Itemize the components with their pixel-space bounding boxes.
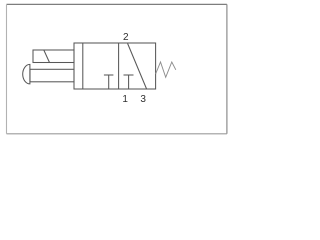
flow path 2 to 3 diagonal: [128, 44, 147, 90]
svg-text:2: 2: [123, 32, 129, 43]
blocked port symbol (left position box): [104, 75, 114, 89]
position divider line: [118, 43, 120, 89]
valve body outline: [74, 43, 156, 89]
actuator coupling divider line: [82, 43, 84, 89]
blocked port 1 symbol (right position box): [124, 75, 134, 89]
svg-text:3: 3: [140, 94, 146, 105]
return spring: [156, 62, 176, 77]
svg-text:1: 1: [122, 94, 128, 105]
solenoid coil: [33, 50, 74, 63]
manual override push button: [23, 64, 74, 84]
